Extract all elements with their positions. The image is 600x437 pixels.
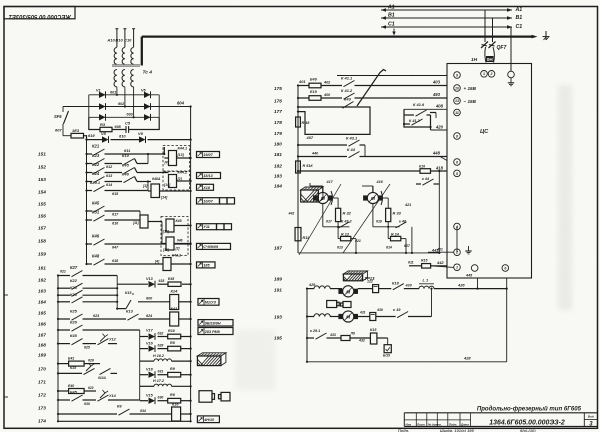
unit box ЦС <box>447 64 532 279</box>
contact К18 <box>393 284 404 290</box>
annot box М1/УЗ <box>198 299 219 306</box>
row154 wire <box>87 181 93 183</box>
vert 421 <box>411 227 413 253</box>
bridge output wire 604 <box>159 106 190 108</box>
relay coil [11] <box>140 215 148 228</box>
label М10.1 brushes <box>347 286 349 289</box>
left bus lower <box>57 276 59 422</box>
resistor R51К <box>296 161 301 173</box>
resistor R14 <box>391 236 401 240</box>
contact К26b <box>72 297 83 303</box>
row180 wire <box>298 156 347 158</box>
bridge outer right wire <box>158 95 160 118</box>
diode V3 <box>99 114 106 120</box>
diode V7 <box>144 114 151 120</box>
contact К44b <box>423 179 434 185</box>
contact К41.2 <box>344 93 355 99</box>
pin 11 <box>454 109 461 116</box>
motor М2 bracket <box>381 191 383 205</box>
diode V6 <box>144 103 151 109</box>
row153 wire <box>87 172 93 174</box>
transformer primary lead А10 <box>116 29 118 47</box>
resistor Е41 <box>69 361 85 366</box>
row166b wire <box>140 336 148 338</box>
annot box 185 <box>197 262 216 268</box>
hatched block right <box>197 353 226 366</box>
wire 420 <box>430 127 432 130</box>
contact К22b <box>72 283 83 289</box>
row156 drop <box>139 211 141 215</box>
relay coil К44.2 <box>169 175 177 188</box>
down arrow under bus <box>393 29 395 35</box>
wire R13 down <box>355 239 357 253</box>
relay coil 648А <box>151 184 160 198</box>
dashed box around К44.2 <box>163 171 190 190</box>
resistor R18 <box>296 117 301 127</box>
bridge row 1 wire <box>89 94 159 96</box>
label 0Н <box>486 56 494 62</box>
contact К29.1b <box>316 333 327 339</box>
diode V2 <box>99 103 106 109</box>
inventory stamp box <box>4 7 75 19</box>
row176 wire <box>298 97 309 99</box>
wire 619b <box>372 204 374 227</box>
row175 wire <box>298 85 309 87</box>
wire to pin 9 <box>337 75 447 77</box>
resistor R6b <box>341 336 350 341</box>
row165 wire <box>58 318 70 320</box>
row171 wire <box>58 399 70 401</box>
resistor R33 <box>386 208 391 221</box>
row193 wire <box>307 316 314 318</box>
wire 448 entry <box>440 157 447 161</box>
middle bus <box>297 86 299 253</box>
row156 wire <box>87 210 93 212</box>
loop К41.2 <box>404 109 431 127</box>
contact К25b <box>72 290 83 296</box>
diode V13 <box>149 281 156 287</box>
transformer secondary winding 2 <box>122 70 125 87</box>
resistor R8 <box>168 346 181 351</box>
contact К15 wire <box>117 308 126 310</box>
pin 1 <box>454 264 461 271</box>
annot box 10/07 <box>197 198 220 204</box>
row157 link <box>161 222 163 244</box>
wire 617b <box>322 204 324 227</box>
chassis ground symbol at bus end <box>545 31 547 40</box>
mech linkage diagonal <box>357 70 386 107</box>
inductor row193 <box>314 314 330 317</box>
wire C1 drop to box ground <box>510 27 512 71</box>
row157 wire <box>87 219 93 221</box>
wire 408 <box>404 108 447 110</box>
annot box СЧ09/09 <box>197 243 231 249</box>
inductor Н16.2 <box>154 359 172 361</box>
title block vline 460 <box>459 413 461 427</box>
vert from box bottom <box>506 278 508 362</box>
loop 407 <box>298 107 370 134</box>
row195 wire <box>307 337 314 339</box>
thermal element ТР10 <box>370 313 376 321</box>
bridge row 2 wire <box>89 106 159 108</box>
bridge outer left wire <box>88 95 90 118</box>
contact К27 <box>72 271 83 277</box>
relay coil К43.2 <box>163 258 171 271</box>
contact К23 <box>94 159 105 165</box>
resistor R9 <box>168 372 181 377</box>
diag link M1 <box>299 184 341 255</box>
row152 up join <box>147 154 149 164</box>
wire R32 to R13 <box>337 222 339 239</box>
breaker QF7 contacts <box>481 42 488 49</box>
relay coil К15 <box>370 333 377 344</box>
row V16 wire <box>140 348 148 350</box>
wire М2 to R33 <box>387 198 389 208</box>
pin 13 <box>454 98 461 105</box>
plug pair mid <box>327 301 337 308</box>
left bus upper <box>86 140 88 264</box>
title block vline 416.3 <box>415 413 417 427</box>
pin 4 <box>454 223 461 230</box>
bridge left wire 605 <box>63 106 89 108</box>
transformer secondary winding 1 <box>114 70 117 87</box>
pin top 2 <box>488 71 495 78</box>
title block vline 470.5 <box>470 413 472 427</box>
row172 wire <box>58 413 117 415</box>
wire A1 drop to QF7 <box>484 10 486 42</box>
transformer secondary winding 3 <box>131 70 134 87</box>
resistor R15 <box>422 264 431 269</box>
secondary lead 3 to bridge <box>133 87 135 117</box>
motor М17.1 <box>343 311 354 322</box>
wire 417 <box>322 186 324 192</box>
contact К43.1 <box>349 140 360 146</box>
row161 wire <box>58 275 70 277</box>
annot box 19/07 <box>197 152 220 158</box>
diag link M2 <box>343 184 390 253</box>
row170 wire <box>58 390 69 392</box>
snubber loop wire <box>89 117 100 129</box>
resistor R13 <box>341 236 351 240</box>
row191 wire <box>307 288 314 290</box>
row Н16.2 wire <box>140 360 154 362</box>
contact К15 <box>126 300 131 309</box>
limit contact У14 <box>98 395 109 401</box>
contact К25c <box>72 314 83 320</box>
thick shield bus <box>142 35 533 37</box>
resistor R11 <box>295 228 301 241</box>
diode V18 <box>149 372 156 378</box>
transformer primary winding 2 <box>122 48 125 65</box>
contact К10 <box>124 159 135 165</box>
row152 wire <box>87 163 93 165</box>
bottom collector wire <box>298 252 439 254</box>
title block doc cell <box>583 413 585 427</box>
capacitor C5 <box>125 126 127 133</box>
row V15 wire <box>140 400 148 402</box>
breaker SF6 <box>62 107 64 113</box>
relay coil К45-1 <box>166 219 174 232</box>
plug connector pair <box>199 391 212 403</box>
scan shading blotch lower middle <box>235 330 275 390</box>
bus line В1 <box>381 17 512 19</box>
limit contact У12 <box>98 339 109 345</box>
resistor R16 <box>420 169 431 174</box>
wire into left bus <box>84 136 87 140</box>
wire М1 to R32 <box>337 198 339 208</box>
transformer primary winding 1 <box>114 48 117 65</box>
transformer core <box>112 64 140 66</box>
secondary lead 1 to bridge <box>116 87 118 95</box>
row174 wire <box>58 420 191 422</box>
wire R33 to R14 <box>387 222 389 239</box>
resistor R32 <box>336 208 341 221</box>
row193 up <box>431 289 433 317</box>
row167 wire <box>58 343 70 345</box>
inductor row191 <box>314 286 330 289</box>
contact К26c <box>72 325 83 331</box>
diode V5 <box>144 92 151 98</box>
contact К45a <box>124 168 135 174</box>
bridge row 3 wire <box>89 116 159 118</box>
diode V16 <box>149 345 156 351</box>
wire 600 <box>138 301 170 303</box>
relay coil К14 <box>170 295 179 310</box>
row168 contacts <box>70 372 83 374</box>
row159 wire <box>87 263 93 265</box>
contact К31 <box>94 215 105 221</box>
row162 wire <box>58 287 70 289</box>
contact К22 <box>94 168 105 174</box>
contact К45d <box>72 339 83 345</box>
contact К48 <box>94 259 105 265</box>
resistor Е49 <box>309 83 321 88</box>
annot box 4Н/10 <box>197 416 219 423</box>
ground mid <box>468 246 470 251</box>
wire to coil К44.1 <box>163 147 165 154</box>
ground top right <box>508 71 515 78</box>
wire 445 stub <box>477 278 479 289</box>
title block vline 447.8 <box>447 413 449 427</box>
transformer primary lead В10 <box>124 29 126 47</box>
resistor R3 <box>100 127 112 131</box>
contact К41.2b <box>412 119 423 125</box>
row V18 wire <box>140 374 148 376</box>
row179 drop <box>364 145 366 157</box>
contact К21 <box>94 149 105 155</box>
wire to resistor 1Е3 <box>63 135 71 137</box>
pin 10 <box>454 85 461 92</box>
resistor 1Е3 <box>71 133 84 138</box>
row181 wire <box>298 170 420 172</box>
pin 2 <box>454 249 461 256</box>
transformer primary winding 3 <box>131 48 134 65</box>
diode V8 <box>102 136 109 142</box>
row155 wire <box>87 190 93 192</box>
row158 wire <box>87 243 93 245</box>
left border fold tick 1 <box>4 294 8 296</box>
wire B1 drop to QF7 <box>492 18 494 42</box>
contact К41.1 <box>344 81 355 87</box>
annot box 18/13 <box>197 173 221 179</box>
bottom bus <box>306 289 308 362</box>
contact К29.1 <box>94 186 105 192</box>
contact К45b <box>94 206 105 212</box>
contact К44a <box>349 152 360 158</box>
annot box 283РМ9 <box>198 328 233 335</box>
contact К48b <box>373 226 400 228</box>
inductor Н17.2 <box>154 384 172 386</box>
thermal element ТР13a <box>373 285 379 293</box>
row179 wire <box>298 144 347 146</box>
title block vline 426.8 <box>426 413 428 427</box>
dashed box around К45 coils <box>161 217 188 256</box>
wire R14 down <box>405 239 407 253</box>
pin 5 <box>454 170 461 177</box>
contact К41.6 <box>416 110 427 116</box>
row Н17.2 wire <box>140 385 154 387</box>
scan shading streak right <box>558 85 572 310</box>
resistor Е40 <box>69 389 85 394</box>
pin bottom b <box>502 265 509 272</box>
bus line С1 <box>381 26 512 28</box>
annot box У11 <box>197 224 217 230</box>
wire 442 entry <box>431 266 454 268</box>
title block mid hline <box>404 419 470 421</box>
vert 439 right <box>438 184 440 253</box>
hatch block М1 <box>301 187 323 202</box>
diode V17 <box>149 333 156 339</box>
QF7 lead 2 into box <box>493 47 494 63</box>
motor М10.1 <box>343 286 354 297</box>
pin 8 <box>454 133 461 140</box>
diode V15 <box>149 398 156 404</box>
hatched block ТР13 <box>343 271 367 281</box>
relay coil К16 <box>172 407 181 421</box>
motor М1 <box>317 192 328 203</box>
connector Б19 <box>387 338 389 345</box>
pin top 1 <box>481 71 488 78</box>
contact К43 <box>343 102 354 109</box>
contact К9 <box>119 409 130 415</box>
row 442 wire <box>409 265 422 267</box>
contact К43.2b <box>323 226 350 228</box>
transformer primary lead С10 <box>133 29 135 47</box>
wire 441 <box>428 251 454 253</box>
contact К46 <box>124 177 135 183</box>
inductor L1 <box>419 286 434 289</box>
row158 wire to coil cluster <box>105 243 167 245</box>
row168 wire <box>58 363 69 365</box>
row V13 wire <box>117 283 148 285</box>
contact К19 <box>397 312 408 318</box>
motor М2 <box>367 192 378 203</box>
diode V1 <box>99 92 106 98</box>
relay coil К45-2 <box>166 237 174 250</box>
row166 wire <box>58 329 70 331</box>
row151 wire <box>87 153 93 155</box>
wire 619 <box>87 139 103 141</box>
contact К45e <box>72 395 83 401</box>
diode V9 <box>139 136 146 142</box>
resistor R10 <box>168 334 181 339</box>
relay coil К44.1 <box>169 151 177 166</box>
лист cell <box>584 418 597 420</box>
motor М1 bracket <box>331 191 333 205</box>
right bus of relay section <box>190 107 192 422</box>
wire 422 elbow <box>430 112 436 114</box>
left border fold tick 2 <box>4 396 8 398</box>
resistor R6 <box>168 398 181 403</box>
pin 6 <box>454 159 461 166</box>
QF7 lead 1 into box <box>485 47 486 63</box>
bus line А1 <box>381 9 512 11</box>
annot box 9В/18 <box>198 320 233 326</box>
annot box Х18 <box>197 184 214 190</box>
resistor Е19 <box>309 96 321 101</box>
row177 wire <box>298 106 341 108</box>
row163 wire <box>58 294 70 296</box>
contact К24 <box>94 177 105 183</box>
thick bus elbow to transformer core <box>141 37 143 66</box>
row164 wire <box>58 301 70 303</box>
resistor Е45 <box>168 282 181 286</box>
pin bottom a <box>471 265 478 272</box>
title block vline 437.3 <box>436 413 438 427</box>
bottom return wire 428 <box>307 361 507 363</box>
pin 9 <box>454 72 461 79</box>
relay coil К41a <box>170 312 179 326</box>
dashed box around К44.1 <box>163 146 190 172</box>
title block outline <box>404 412 597 414</box>
wire 416 <box>372 186 374 192</box>
contact К13 <box>128 314 139 320</box>
contact К46b <box>94 239 105 245</box>
secondary lead 2 to bridge <box>124 87 126 107</box>
